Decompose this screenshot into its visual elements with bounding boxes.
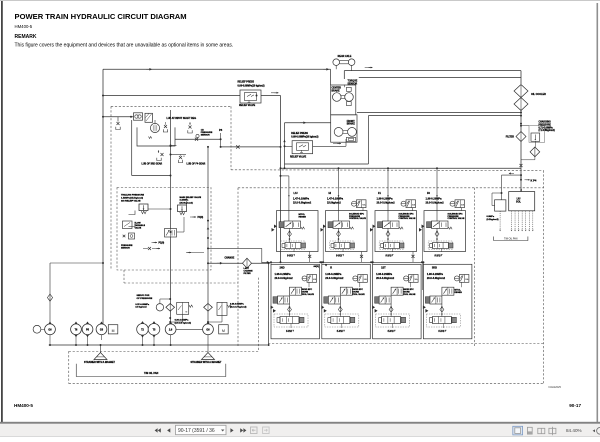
- wire tc return: [131, 120, 133, 176]
- toolbar prev view icon: [251, 427, 258, 434]
- dashed cv bottom leg: [124, 282, 238, 284]
- motor M2: [219, 325, 229, 334]
- wire relief line: [103, 95, 240, 97]
- svg-text:90-17: 90-17: [569, 403, 581, 408]
- dashed bank top: [238, 187, 544, 189]
- svg-text:HM400-5: HM400-5: [15, 24, 33, 29]
- svg-text:REGEN: REGEN: [454, 292, 462, 294]
- strainer S1: [94, 353, 107, 360]
- wire bus C: [359, 76, 521, 78]
- svg-text:(L)(Q) T: (L)(Q) T: [287, 255, 296, 257]
- svg-text:S/S RELIEF VALVE: S/S RELIEF VALVE: [121, 199, 141, 202]
- valve module F1: [375, 211, 417, 252]
- wire left pump line: [49, 263, 51, 324]
- dashed control valve box: [117, 188, 211, 271]
- svg-text:P1(0): P1(0): [159, 242, 165, 244]
- wire bank return: [268, 263, 270, 345]
- svg-text:LUB OF F4 GEAR: LUB OF F4 GEAR: [187, 163, 206, 166]
- svg-text:(L)(Q) T: (L)(Q) T: [435, 255, 444, 257]
- svg-text:SENSOR: SENSOR: [121, 248, 130, 250]
- svg-text:15.0kg/cm2: 15.0kg/cm2: [327, 200, 341, 204]
- svg-text:REAR AXLE: REAR AXLE: [338, 55, 352, 58]
- svg-text:(L)(Q) T: (L)(Q) T: [388, 330, 397, 332]
- wire filter line: [208, 262, 269, 264]
- pump P5: [137, 324, 149, 336]
- svg-text:OP PRESSURE: OP PRESSURE: [137, 298, 153, 300]
- svg-text:1.96-0.29MPa: 1.96-0.29MPa: [275, 272, 292, 276]
- svg-text:MAIN RELIEF VALVE: MAIN RELIEF VALVE: [180, 196, 202, 199]
- svg-text:1.47-0.29MPa: 1.47-0.29MPa: [327, 197, 344, 201]
- toolbar next view icon: [263, 427, 270, 434]
- solenoid block small: [495, 200, 506, 211]
- svg-text:VALVE: VALVE: [135, 227, 142, 230]
- oil cooler: [514, 85, 528, 98]
- toolbar first page button: [155, 428, 161, 432]
- wire mid vertical 208: [207, 147, 209, 324]
- dashed transmission box left: [110, 106, 112, 270]
- toolbar continuous icon: [527, 427, 532, 434]
- toolbar page field: [176, 425, 227, 434]
- svg-text:OIL COOLER: OIL COOLER: [531, 93, 546, 96]
- wire relief out: [261, 95, 281, 97]
- wire p3 drop: [220, 133, 222, 147]
- toolbar two page icon: [538, 428, 545, 433]
- dashed shelf: [231, 169, 544, 172]
- wire lub line: [175, 138, 221, 140]
- pump P1: [45, 324, 56, 335]
- svg-text:This figure covers the equipme: This figure covers the equipment and dev…: [15, 43, 234, 49]
- drain lines from block: [511, 211, 513, 230]
- servo diamond 2: [204, 304, 213, 312]
- svg-text:20.0-3.0kg/cm2: 20.0-3.0kg/cm2: [275, 276, 294, 280]
- drain input shaft 2: [189, 122, 191, 125]
- pump P7: [165, 324, 176, 335]
- wire brake loop 2: [368, 115, 521, 117]
- viewer window left edge: [1, 0, 3, 423]
- wire mid vertical 170: [170, 110, 172, 324]
- toolbar last page button: [240, 428, 246, 432]
- pressure sensor 1-2: [196, 134, 199, 137]
- valve module 3RD: [423, 264, 472, 339]
- relief valve RV2: [292, 141, 313, 154]
- wire pump shaft: [176, 328, 203, 330]
- svg-text:15.0-3.0kg/cm2: 15.0-3.0kg/cm2: [293, 200, 312, 204]
- svg-text:(L)(Q) T: (L)(Q) T: [286, 330, 295, 332]
- dashed bank bottom: [268, 343, 543, 345]
- svg-text:(L)(Q) T: (L)(Q) T: [337, 330, 346, 332]
- wire pump drops: [49, 335, 51, 345]
- pump P8: [203, 324, 214, 335]
- svg-text:1.96-0.29MPa: 1.96-0.29MPa: [426, 197, 443, 201]
- charging check diamond: [530, 147, 540, 157]
- svg-text:Q: Q: [325, 265, 327, 267]
- L/U SOL block U10: [509, 192, 535, 211]
- wire cooler down: [520, 111, 522, 133]
- svg-text:PRESSURE: PRESSURE: [539, 124, 552, 126]
- toolbar prev page button: [167, 428, 170, 432]
- torque converter: [150, 123, 159, 132]
- svg-text:CHANGE: CHANGE: [244, 269, 254, 272]
- tc housing box: [137, 127, 175, 146]
- svg-text:P4(0): P4(0): [198, 216, 204, 219]
- charging relief valve: [529, 126, 545, 143]
- svg-text:RELIEF PRESS: RELIEF PRESS: [238, 82, 255, 84]
- cv drain x pair: [148, 247, 151, 250]
- rear axle: [333, 59, 340, 66]
- svg-text:STRAINER WITH A MAGNET: STRAINER WITH A MAGNET: [191, 361, 223, 364]
- svg-text:(L)(Q) T: (L)(Q) T: [336, 255, 345, 257]
- wire lub drains line: [171, 145, 177, 147]
- svg-text:FRONT: FRONT: [347, 121, 356, 123]
- svg-text:3RD: 3RD: [432, 266, 437, 269]
- toolbar single page icon selected: [513, 426, 523, 435]
- bracket tm oil pan upper: [494, 237, 528, 241]
- svg-text:(7.2-0.8kg/cm2): (7.2-0.8kg/cm2): [539, 130, 556, 132]
- wire brake loop 1: [357, 112, 521, 114]
- svg-text:RELIEF VALVE: RELIEF VALVE: [290, 156, 307, 159]
- svg-text:FILTER: FILTER: [244, 273, 252, 275]
- svg-text:CONTROL VALVE: CONTROL VALVE: [399, 217, 416, 220]
- svg-text:LUB AT INPUT SHAFT REG: LUB AT INPUT SHAFT REG: [167, 117, 197, 120]
- drain f4 gear: [179, 156, 182, 159]
- center brake: [331, 85, 356, 115]
- dashed bank left: [237, 188, 239, 347]
- svg-text:SENSOR: SENSOR: [201, 135, 210, 137]
- svg-text:TRAILING PRESSURE: TRAILING PRESSURE: [121, 194, 145, 197]
- svg-text:(L)(Q) T: (L)(Q) T: [386, 255, 395, 257]
- wire cooler drop: [520, 71, 522, 84]
- svg-text:T/M OIL PAN: T/M OIL PAN: [504, 238, 518, 241]
- svg-text:0.30-0.05MPa: 0.30-0.05MPa: [175, 320, 190, 322]
- valve module HI: [326, 211, 368, 252]
- tm oil pan bracket: [76, 364, 226, 377]
- gear pump symbol: [134, 113, 143, 120]
- dashed bottom: [69, 383, 544, 385]
- svg-text:1ST: 1ST: [381, 266, 386, 269]
- wire cv vert 184: [183, 217, 185, 232]
- svg-text:1.47-0.29MPa: 1.47-0.29MPa: [293, 197, 310, 201]
- valve module 1ST: [373, 264, 422, 339]
- svg-text:SOL: SOL: [516, 201, 521, 204]
- wire charging down: [520, 142, 522, 181]
- svg-text:20.0-3.0kg/cm2: 20.0-3.0kg/cm2: [325, 276, 344, 280]
- svg-text:20.0-3.0kg/cm2: 20.0-3.0kg/cm2: [427, 276, 446, 280]
- wire pump collector: [49, 344, 268, 346]
- svg-text:0.69-0.09MPa(10 kg/cm2): 0.69-0.09MPa(10 kg/cm2): [291, 137, 318, 139]
- svg-text:HI: HI: [329, 192, 332, 195]
- svg-text:CENTER: CENTER: [332, 88, 342, 90]
- svg-text:0.69-0.09MPa(10 kg/cm2): 0.69-0.09MPa(10 kg/cm2): [238, 86, 265, 88]
- drain input shaft 1: [164, 125, 167, 128]
- charging filter: [516, 132, 526, 142]
- svg-text:M: M: [222, 329, 225, 333]
- svg-text:FILTER: FILTER: [506, 136, 514, 139]
- svg-text:M: M: [186, 312, 188, 314]
- svg-text:VARIABLE: VARIABLE: [135, 224, 146, 227]
- svg-text:0.71-0.08MPa: 0.71-0.08MPa: [539, 127, 554, 129]
- svg-text:0.9MPa: 0.9MPa: [487, 216, 495, 218]
- svg-text:(9.2kg/cm2): (9.2kg/cm2): [487, 219, 499, 221]
- dashed valve bank right: [543, 171, 545, 384]
- svg-text:1.96-0.29MPa: 1.96-0.29MPa: [377, 197, 394, 201]
- svg-text:LUB OF 3RD GEAR: LUB OF 3RD GEAR: [142, 163, 163, 166]
- svg-text:CHANGE: CHANGE: [225, 256, 235, 259]
- cv directional valve: [165, 229, 177, 238]
- svg-text:1.96-0.29MPa: 1.96-0.29MPa: [427, 272, 444, 276]
- wire left supply vertical: [102, 69, 104, 324]
- svg-text:BRAKE: BRAKE: [332, 89, 341, 92]
- flow variable valve: [123, 221, 133, 229]
- wire rv2 line: [285, 145, 293, 147]
- pump P4: [96, 324, 107, 335]
- drain valve tc left: [117, 117, 119, 122]
- dashed oil pan top: [69, 350, 259, 352]
- pump P2: [71, 324, 82, 335]
- svg-text:1.96-0.29MPa: 1.96-0.29MPa: [376, 272, 393, 276]
- svg-text:R: R: [330, 266, 332, 269]
- svg-text:(3.0-3.5 kg/cm2): (3.0-3.5 kg/cm2): [175, 322, 192, 324]
- svg-text:0.39-0.03MPa: 0.39-0.03MPa: [230, 304, 245, 306]
- wire cv link1: [148, 208, 171, 210]
- wire gap verticals: [322, 227, 324, 262]
- valve module 2ND: [271, 264, 320, 339]
- dashed transmission box top: [111, 105, 231, 107]
- svg-text:BRAKE: BRAKE: [347, 123, 356, 126]
- svg-text:L/U: L/U: [294, 192, 298, 195]
- inlet filter: [145, 113, 153, 122]
- servo gauge: [156, 304, 163, 311]
- svg-text:(L)(Q) T: (L)(Q) T: [438, 330, 447, 332]
- svg-text:(4.0-0.3 kg/cm2): (4.0-0.3 kg/cm2): [230, 305, 247, 308]
- wire bank bus low: [262, 261, 423, 263]
- wire torque sensor drop: [343, 71, 345, 79]
- svg-text:90-17 (3591 / 36: 90-17 (3591 / 36: [178, 428, 215, 434]
- svg-text:POWER TRAIN HYDRAULIC CIRCUIT: POWER TRAIN HYDRAULIC CIRCUIT DIAGRAM: [15, 12, 187, 21]
- svg-text:CONTROL VALVE: CONTROL VALVE: [448, 217, 465, 220]
- tc spring: [149, 137, 152, 139]
- wire servo links: [182, 314, 184, 322]
- wire lu feed: [520, 175, 522, 192]
- wire p3 line right: [221, 146, 281, 148]
- svg-text:CONTROL VALVE: CONTROL VALVE: [349, 217, 366, 220]
- svg-text:REGEN: REGEN: [299, 216, 307, 218]
- pump P6: [148, 324, 160, 336]
- svg-text:20.0-3.0kg/cm2: 20.0-3.0kg/cm2: [376, 276, 395, 280]
- toolbar background: [0, 423, 600, 437]
- pump aux circle: [33, 325, 41, 333]
- svg-text:K P4: K P4: [531, 179, 537, 183]
- pump P3: [82, 324, 93, 335]
- main relief valve: [178, 205, 187, 212]
- svg-text:84.40%: 84.40%: [566, 428, 582, 433]
- svg-text:1.52MPa(15.5kg/cm2): 1.52MPa(15.5kg/cm2): [121, 197, 143, 199]
- svg-text:T/M OIL PAN: T/M OIL PAN: [144, 372, 159, 375]
- valve module L/U: [277, 211, 319, 252]
- wire rv2 vert: [284, 123, 286, 169]
- servo valve 2: [217, 302, 227, 315]
- valve module F0: [424, 211, 466, 252]
- toolbar two page continuous icon: [549, 428, 556, 433]
- wire top feed bus: [281, 167, 522, 169]
- motor M1: [108, 325, 118, 334]
- svg-text:2ND: 2ND: [280, 266, 285, 269]
- svg-text:RELIEF PRESS: RELIEF PRESS: [291, 133, 308, 135]
- wire cv bottom links: [208, 247, 262, 249]
- wire right feed vertical: [280, 96, 282, 263]
- wire tc feed: [103, 116, 134, 118]
- drain 2nd gear: [158, 150, 160, 153]
- svg-text:REMARK: REMARK: [15, 34, 37, 40]
- svg-text:STRAINER WITH A MAGNET: STRAINER WITH A MAGNET: [84, 361, 116, 364]
- svg-text:3.43MPa: 3.43MPa: [180, 199, 190, 202]
- toolbar next page button: [230, 428, 233, 432]
- last change filter: [243, 258, 252, 268]
- viewer window right scrollbar edge: [597, 3, 599, 423]
- svg-text:RELIEF VALVE: RELIEF VALVE: [239, 104, 256, 107]
- svg-text:#4(X): #4(X): [314, 265, 320, 268]
- svg-text:20.0-3.0kg/cm2: 20.0-3.0kg/cm2: [377, 200, 396, 204]
- ss relief valve: [139, 204, 148, 211]
- svg-text:20.0-3.0kg/cm2: 20.0-3.0kg/cm2: [426, 200, 445, 204]
- viewer window top edge: [0, 0, 600, 1]
- wire front brake feed: [285, 122, 331, 124]
- svg-text:3.8 kg/cm2: 3.8 kg/cm2: [135, 307, 147, 309]
- relief valve RV1: [240, 90, 261, 103]
- svg-text:TORQUE: TORQUE: [348, 81, 358, 83]
- wire top bus A: [103, 68, 331, 70]
- strainer S2: [202, 353, 215, 360]
- svg-text:N4H12025: N4H12025: [549, 385, 562, 389]
- svg-text:1.96-0.29MPa: 1.96-0.29MPa: [325, 272, 342, 276]
- svg-text:HM400-5: HM400-5: [14, 403, 33, 408]
- wire bus B to oil cooler: [344, 70, 521, 72]
- pressure sensor cv: [129, 233, 135, 239]
- svg-text:0.37-0.03MPa: 0.37-0.03MPa: [135, 304, 150, 306]
- svg-text:SERVO FOR: SERVO FOR: [137, 295, 150, 297]
- svg-text:P3: P3: [219, 128, 223, 132]
- svg-text:M: M: [112, 329, 115, 333]
- svg-text:CHARGING: CHARGING: [539, 121, 551, 124]
- valve module R: [322, 264, 371, 339]
- servo valve 1: [177, 302, 189, 314]
- dashed transmission box right: [230, 106, 232, 169]
- dashed bank inner right: [473, 188, 475, 347]
- servo diamond 1: [166, 304, 175, 312]
- toolbar zoom caret: [593, 429, 595, 432]
- svg-text:LAST: LAST: [244, 267, 250, 270]
- dashed oil pan left: [68, 351, 70, 383]
- front brake: [331, 115, 357, 142]
- wire module drain stubs: [309, 252, 311, 263]
